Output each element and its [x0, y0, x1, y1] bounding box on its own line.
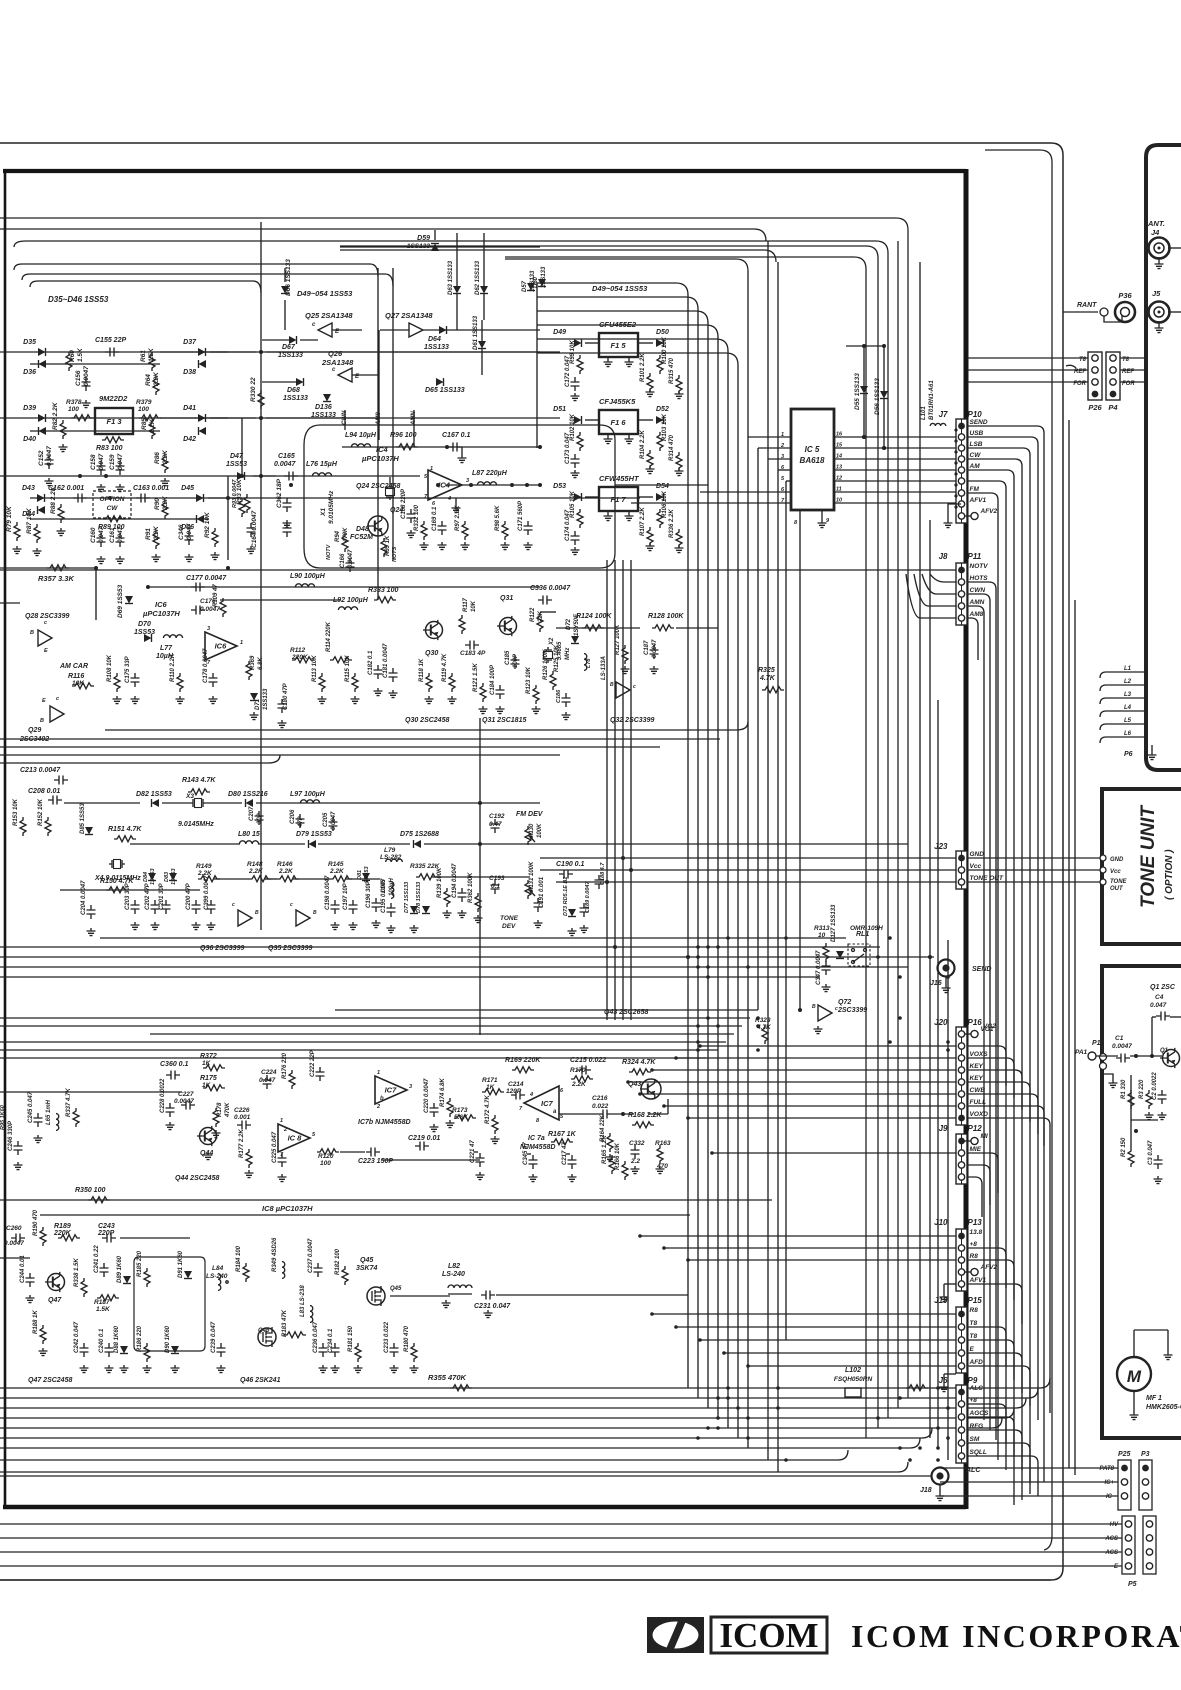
svg-text:D54: D54	[656, 483, 669, 490]
svg-text:D78 1SS133: D78 1SS133	[416, 882, 422, 913]
pin	[1121, 1479, 1127, 1485]
wire	[724, 1352, 956, 1354]
svg-text:C198 0.0047: C198 0.0047	[325, 875, 331, 910]
label T8	[1079, 357, 1130, 363]
wire	[930, 574, 956, 582]
node	[798, 1008, 802, 1012]
wire	[652, 1069, 956, 1071]
svg-text:C231 0.047: C231 0.047	[474, 1303, 511, 1310]
diode D62	[475, 233, 488, 320]
ground	[1158, 1112, 1167, 1120]
capacitor C196	[366, 880, 381, 912]
ground	[318, 696, 327, 704]
connector J10 P13	[934, 1218, 982, 1291]
svg-text:1K: 1K	[202, 1060, 212, 1067]
label ACS2	[1104, 1550, 1118, 1556]
svg-text:T8: T8	[970, 1333, 978, 1340]
pin AFV1	[958, 1277, 986, 1287]
capacitor C171	[518, 500, 533, 535]
crystal X4	[94, 860, 141, 883]
svg-text:Q45: Q45	[390, 1286, 402, 1292]
capacitor C197	[343, 882, 358, 914]
pin	[1125, 1563, 1131, 1569]
box PA unit	[1102, 966, 1181, 1438]
node	[1134, 1054, 1154, 1133]
svg-text:C224: C224	[261, 1069, 277, 1076]
wire	[0, 1551, 1122, 1553]
svg-text:IC+: IC+	[1104, 1480, 1114, 1486]
svg-text:1K: 1K	[202, 1082, 212, 1089]
ground	[212, 1130, 221, 1138]
svg-text:R336 2.2K: R336 2.2K	[669, 509, 675, 538]
svg-text:D85 1SS53: D85 1SS53	[80, 803, 86, 834]
svg-text:Q30 2SC2458: Q30 2SC2458	[405, 717, 449, 724]
wire L3	[1100, 692, 1146, 704]
wire	[967, 1118, 1050, 1413]
node	[936, 1426, 940, 1430]
wire	[392, 268, 394, 560]
svg-text:R337 4.7K: R337 4.7K	[66, 1088, 72, 1117]
ground	[387, 925, 396, 933]
svg-text:R314 470: R314 470	[669, 434, 675, 461]
wire	[30, 363, 160, 365]
ground	[116, 484, 125, 492]
wire	[585, 419, 599, 421]
wire Vcc net	[540, 869, 1102, 871]
diode D64	[424, 326, 449, 351]
pin	[1110, 379, 1116, 385]
pin CWB	[958, 1087, 985, 1097]
label Q36 2SC3399	[200, 945, 244, 952]
svg-text:R85: R85	[141, 418, 148, 430]
svg-text:R94: R94	[335, 530, 341, 542]
svg-text:GND: GND	[970, 851, 985, 858]
resistor R323	[755, 1017, 772, 1044]
svg-text:AM CAR: AM CAR	[59, 663, 88, 670]
wire AMN enclosure	[304, 425, 615, 568]
svg-text:C163 0.001: C163 0.001	[133, 485, 169, 492]
node	[716, 945, 720, 949]
capacitor C168	[401, 488, 416, 523]
transistor Q25	[312, 322, 340, 337]
svg-text:9.0145MHz: 9.0145MHz	[178, 821, 214, 828]
svg-text:Q36 2SC3399: Q36 2SC3399	[200, 945, 244, 952]
svg-text:0.0047: 0.0047	[274, 461, 297, 468]
svg-text:0.1: 0.1	[491, 883, 500, 890]
ground	[166, 1122, 175, 1130]
wire	[0, 229, 766, 241]
node	[716, 1426, 720, 1430]
wire	[967, 1456, 1038, 1496]
pin 10	[834, 498, 956, 504]
label Q1 2SC	[1150, 984, 1176, 991]
svg-text:R172 4.7K: R172 4.7K	[485, 1095, 491, 1124]
op-amp IC6	[205, 626, 243, 666]
ground	[354, 1365, 363, 1373]
inductor L94	[345, 432, 377, 447]
pin HOTS	[958, 575, 988, 585]
svg-text:IC7b NJM4558D: IC7b NJM4558D	[358, 1119, 411, 1126]
wire	[60, 889, 200, 891]
capacitor C176	[191, 598, 220, 615]
svg-text:R92 10K: R92 10K	[204, 511, 211, 538]
svg-text:R112: R112	[290, 647, 305, 654]
svg-text:HV: HV	[1110, 1522, 1119, 1528]
capacitor C213	[20, 767, 68, 785]
svg-text:+8: +8	[970, 1241, 978, 1248]
inductor L77	[156, 635, 183, 660]
capacitor C224	[259, 1069, 277, 1089]
svg-text:C200 47P: C200 47P	[186, 882, 192, 910]
svg-text:13: 13	[836, 465, 842, 471]
wire	[0, 1475, 932, 1477]
svg-text:R123 10K: R123 10K	[526, 666, 532, 694]
node	[936, 1458, 940, 1462]
svg-text:RL1: RL1	[856, 931, 869, 938]
svg-text:VOXD: VOXD	[970, 1111, 989, 1118]
node	[686, 1258, 690, 1262]
diode D53	[553, 483, 581, 501]
resistor R113	[312, 655, 325, 692]
svg-text:D59: D59	[417, 235, 430, 242]
wire	[1096, 1055, 1118, 1057]
connector J19 P15	[934, 1296, 982, 1373]
pin AM	[958, 463, 980, 473]
pin MIE	[958, 1146, 981, 1156]
svg-text:2: 2	[376, 1104, 380, 1110]
diode D60	[533, 266, 547, 288]
svg-text:C196 30P: C196 30P	[366, 880, 372, 908]
svg-text:C156: C156	[75, 370, 82, 386]
svg-text:R125 10K: R125 10K	[554, 644, 560, 672]
svg-text:PAT8: PAT8	[1100, 1466, 1115, 1472]
svg-text:C159: C159	[109, 454, 116, 470]
wire main border top	[3, 169, 966, 173]
pin R8	[958, 1307, 978, 1317]
potentiometer R130	[525, 823, 543, 845]
svg-text:R124 100K: R124 100K	[576, 613, 612, 620]
svg-text:P5: P5	[1128, 1581, 1137, 1588]
svg-text:C185: C185	[505, 650, 511, 665]
svg-text:D80 1SS216: D80 1SS216	[228, 791, 268, 798]
svg-text:F1 6: F1 6	[610, 418, 626, 427]
svg-text:C164 0.0047: C164 0.0047	[251, 510, 258, 548]
svg-text:R90: R90	[154, 498, 161, 510]
svg-text:D136: D136	[315, 404, 332, 411]
diode D44	[22, 506, 45, 518]
label Q27 2SA1348	[385, 311, 433, 320]
ground	[113, 696, 122, 704]
wire	[30, 497, 640, 499]
wire	[967, 1353, 1022, 1393]
connector J8 P11	[939, 552, 982, 625]
wire	[940, 1467, 1118, 1469]
wire	[664, 1247, 956, 1249]
svg-text:FC52M: FC52M	[350, 534, 373, 541]
svg-text:Q29: Q29	[28, 727, 41, 734]
capacitor C237	[308, 1238, 323, 1277]
svg-text:GND: GND	[1110, 857, 1124, 863]
node	[954, 505, 957, 508]
svg-text:LS-240: LS-240	[206, 1273, 228, 1280]
ground	[458, 910, 467, 918]
node	[946, 975, 950, 979]
capacitor C203	[125, 882, 140, 914]
wire	[332, 329, 362, 331]
wire	[700, 1339, 956, 1341]
wire	[0, 1450, 848, 1460]
transistor Q28	[30, 620, 52, 654]
node	[436, 445, 529, 487]
capacitor C158	[90, 453, 106, 475]
svg-text:0.047: 0.047	[259, 1077, 276, 1084]
svg-text:D89 1K60: D89 1K60	[117, 1255, 123, 1283]
svg-text:L2: L2	[1124, 679, 1132, 685]
wire	[940, 1495, 1118, 1497]
wire	[340, 1151, 365, 1153]
svg-text:Q47 2SC2458: Q47 2SC2458	[28, 1377, 72, 1384]
svg-text:ICOM INCORPORAT: ICOM INCORPORAT	[851, 1618, 1181, 1654]
connector J6 P9	[939, 1376, 978, 1463]
wire	[556, 627, 640, 629]
diode D47	[226, 453, 247, 480]
label E	[1114, 1564, 1119, 1570]
diode D59	[407, 235, 439, 251]
wire	[253, 475, 276, 477]
wire	[757, 448, 759, 1010]
diode D52	[656, 406, 669, 424]
svg-text:R87 10K: R87 10K	[26, 507, 33, 534]
svg-text:100: 100	[320, 1160, 331, 1167]
label IC7b NJM4558D	[358, 1119, 411, 1126]
resistor R178	[213, 1102, 231, 1127]
inductor L78	[584, 654, 592, 671]
ground	[87, 928, 96, 936]
wire	[1167, 1330, 1169, 1352]
svg-text:10: 10	[836, 498, 842, 504]
svg-text:c: c	[44, 620, 47, 626]
svg-text:D35~D46 1SS53: D35~D46 1SS53	[48, 295, 109, 304]
pin T8	[958, 1320, 977, 1330]
node	[746, 1436, 750, 1440]
wire	[967, 1177, 982, 1217]
node	[605, 880, 609, 884]
capacitor C159	[109, 453, 125, 475]
pin VG1	[965, 1026, 994, 1038]
wire	[445, 484, 540, 486]
diode D66	[281, 259, 292, 296]
svg-text:Q25 2SA1348: Q25 2SA1348	[305, 311, 353, 320]
svg-text:CFJ455K5: CFJ455K5	[599, 397, 636, 406]
label TONE DEV	[500, 915, 519, 930]
svg-text:R3 220: R3 220	[1139, 1079, 1145, 1099]
diode D38	[183, 360, 206, 376]
wire	[537, 353, 738, 365]
svg-text:D91 1K60: D91 1K60	[178, 1250, 184, 1278]
connector J23	[934, 842, 967, 889]
svg-text:0.047: 0.047	[186, 523, 193, 540]
svg-text:D63 1SS133: D63 1SS133	[448, 260, 454, 295]
svg-text:47P: 47P	[298, 815, 304, 828]
resistor R146	[277, 861, 299, 882]
svg-text:E: E	[970, 1346, 975, 1353]
svg-text:C193: C193	[489, 875, 505, 882]
resistor R325	[758, 667, 784, 693]
svg-text:C228 0.0022: C228 0.0022	[160, 1078, 166, 1113]
jack P36	[1115, 291, 1135, 322]
svg-text:Q24 2SC2458: Q24 2SC2458	[356, 483, 400, 490]
pin USB	[958, 430, 983, 440]
svg-text:J10: J10	[934, 1218, 948, 1227]
pin	[1121, 1465, 1128, 1472]
capacitor C3	[1148, 1140, 1163, 1169]
svg-text:0.047: 0.047	[117, 526, 124, 543]
svg-text:AFD: AFD	[969, 1359, 984, 1366]
svg-text:2.2K: 2.2K	[571, 1081, 587, 1088]
capacitor C205	[323, 811, 338, 831]
ground	[14, 1162, 23, 1170]
transistor Q36	[232, 902, 259, 926]
wire	[540, 611, 556, 613]
wire	[697, 309, 699, 1398]
pin KEY	[958, 1075, 983, 1085]
resistor R100 10K	[657, 336, 668, 374]
pin	[1092, 355, 1098, 361]
node	[756, 1016, 760, 1020]
capacitor C240	[99, 1328, 114, 1357]
svg-text:R186 220: R186 220	[137, 1325, 143, 1352]
capacitor C187	[644, 639, 659, 659]
wire main border left	[4, 171, 7, 1507]
wire	[1120, 357, 1146, 359]
resistor R355	[428, 1373, 928, 1391]
resistor R145	[328, 861, 352, 882]
svg-text:C225 0.047: C225 0.047	[272, 1131, 278, 1163]
diode D72	[566, 613, 580, 644]
svg-text:R176 220: R176 220	[282, 1052, 288, 1079]
svg-text:D49~054 1SS53: D49~054 1SS53	[592, 284, 648, 293]
pin	[958, 1162, 964, 1168]
svg-text:IC-: IC-	[1106, 1494, 1114, 1500]
svg-text:0.0047: 0.0047	[46, 446, 53, 466]
wire	[344, 410, 346, 430]
resistor R116	[68, 673, 94, 689]
pin AMN	[958, 599, 984, 609]
label IC4 uPC1037H	[361, 445, 399, 463]
capacitor C152	[38, 446, 54, 469]
capacitor C239	[211, 1321, 226, 1357]
wire	[266, 351, 540, 353]
wire	[0, 569, 956, 571]
plug P1	[1088, 1040, 1118, 1088]
resistor R185	[137, 1250, 150, 1287]
diode D79	[296, 831, 332, 848]
inductor L101	[921, 380, 946, 426]
wire	[967, 357, 1088, 359]
wire	[967, 618, 978, 660]
ground	[474, 915, 483, 923]
node	[716, 1396, 720, 1400]
svg-text:0.047: 0.047	[98, 453, 105, 470]
svg-text:L1: L1	[1124, 666, 1132, 672]
ground	[319, 1365, 328, 1373]
svg-text:IC6: IC6	[155, 600, 168, 609]
svg-text:C181 0.0047: C181 0.0047	[383, 643, 389, 678]
node	[1144, 670, 1148, 674]
svg-text:R97 2.2K: R97 2.2K	[455, 505, 461, 531]
transistor Q1	[1160, 1048, 1180, 1068]
node	[862, 435, 866, 439]
ground	[45, 478, 54, 486]
pin NOTV	[958, 563, 988, 573]
svg-text:B: B	[812, 1004, 816, 1010]
pin 11	[834, 487, 956, 493]
diode D54	[656, 483, 669, 501]
diode D57	[522, 270, 536, 292]
ground	[13, 546, 22, 554]
resistor R120	[317, 1149, 339, 1167]
svg-text:D66 1SS133: D66 1SS133	[285, 259, 292, 296]
svg-text:C241 0.22: C241 0.22	[94, 1245, 100, 1273]
ground	[410, 925, 419, 933]
wire	[262, 381, 300, 383]
svg-text:D35: D35	[23, 339, 36, 346]
pin 8	[794, 510, 800, 527]
svg-text:1SS53: 1SS53	[171, 868, 177, 885]
wire	[717, 337, 719, 1418]
wire	[967, 369, 1088, 371]
ground	[331, 1365, 340, 1373]
pin	[1142, 1465, 1149, 1472]
resistor R333	[368, 587, 398, 603]
capacitor C207	[249, 806, 264, 825]
svg-text:C239 0.047: C239 0.047	[211, 1321, 217, 1353]
svg-text:R315 470: R315 470	[669, 357, 675, 384]
resistor R95	[381, 535, 391, 557]
svg-text:B: B	[610, 682, 614, 688]
ground	[491, 1136, 500, 1144]
svg-text:14: 14	[836, 454, 842, 460]
capacitor C160	[90, 526, 106, 547]
node	[888, 1040, 892, 1044]
wire	[340, 250, 776, 262]
svg-text:B: B	[313, 910, 317, 916]
wire	[14, 264, 378, 276]
node	[954, 494, 957, 497]
ground	[351, 696, 360, 704]
resistor R378	[66, 399, 93, 421]
capacitor C222	[310, 1049, 325, 1081]
svg-text:R95 1K: R95 1K	[385, 535, 391, 556]
svg-text:D40: D40	[23, 436, 36, 443]
svg-text:C347 0.0047: C347 0.0047	[816, 950, 822, 985]
wire	[0, 602, 20, 604]
node	[918, 1446, 922, 1450]
wire	[967, 1417, 1014, 1457]
svg-text:D77 1SS133: D77 1SS133	[404, 882, 410, 913]
svg-text:D60: D60	[533, 276, 539, 288]
svg-text:J23: J23	[934, 842, 948, 851]
svg-text:10: 10	[818, 932, 826, 939]
svg-text:2.2K: 2.2K	[162, 495, 169, 511]
svg-text:DEV: DEV	[502, 923, 516, 930]
svg-text:3: 3	[466, 478, 469, 484]
resistor R127	[615, 624, 628, 664]
inductor L83	[300, 1285, 313, 1323]
svg-text:AM: AM	[969, 463, 981, 470]
node	[716, 1024, 720, 1028]
svg-text:0.047: 0.047	[98, 526, 105, 543]
